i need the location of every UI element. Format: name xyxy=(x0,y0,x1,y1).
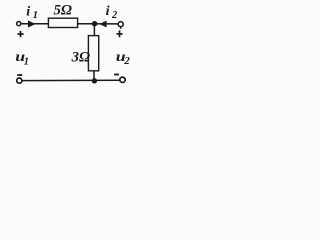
wire: 3-ohm resistor down to bottom rail xyxy=(93,71,95,81)
current arrow i2 (points left) xyxy=(99,21,106,28)
svg-text:i: i xyxy=(26,4,30,19)
terminal 1- (bottom-left open circle) xyxy=(17,78,22,83)
svg-text:1: 1 xyxy=(33,10,38,21)
label u1 xyxy=(15,49,25,64)
terminal 1+ (top-left open circle) xyxy=(17,22,21,26)
label u2 xyxy=(116,49,126,64)
svg-text:1: 1 xyxy=(24,56,29,67)
plus sign port 2 xyxy=(116,30,122,37)
svg-text:2: 2 xyxy=(123,55,130,67)
stub under terminal 2+ xyxy=(120,27,122,29)
wire: top junction down to 3-ohm resistor xyxy=(93,24,95,36)
junction node top xyxy=(92,21,97,26)
terminal 2- (bottom-right open circle) xyxy=(120,77,125,82)
bottom rail wire xyxy=(22,79,120,81)
junction node bottom xyxy=(92,78,97,83)
resistor 3-ohm (vertical box) xyxy=(88,36,98,71)
wire: 5-ohm resistor to right terminal xyxy=(78,23,118,25)
wire: left terminal to 5-ohm resistor xyxy=(21,23,49,25)
plus sign port 1 xyxy=(17,31,23,37)
terminal 2+ (top-right open circle) xyxy=(118,22,123,27)
svg-text:i: i xyxy=(106,4,110,19)
resistor 5-ohm (horizontal box) xyxy=(48,18,77,27)
svg-text:3Ω: 3Ω xyxy=(71,50,90,66)
svg-text:2: 2 xyxy=(111,10,118,21)
minus sign port 1 xyxy=(17,74,22,76)
svg-text:5Ω: 5Ω xyxy=(54,2,72,18)
current arrow i1 (points right) xyxy=(28,21,36,28)
minus sign port 2 xyxy=(114,74,119,76)
